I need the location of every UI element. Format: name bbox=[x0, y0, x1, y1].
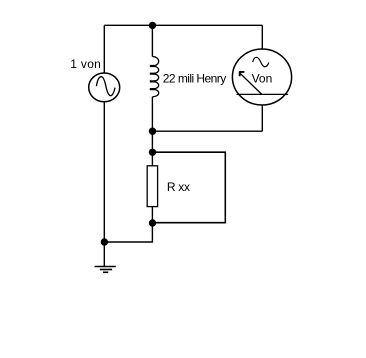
svg-text:Von: Von bbox=[252, 71, 273, 85]
svg-text:22 mili Henry: 22 mili Henry bbox=[163, 71, 226, 85]
svg-text:R xx: R xx bbox=[167, 180, 190, 194]
svg-text:1 von: 1 von bbox=[70, 57, 101, 71]
